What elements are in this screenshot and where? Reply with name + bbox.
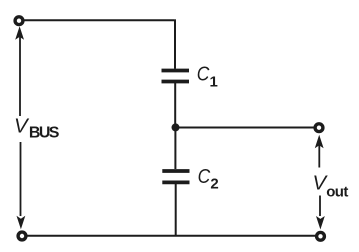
node junction [172, 123, 180, 131]
label C1 [197, 63, 218, 91]
wire C1 top stub [174, 19, 176, 69]
capacitor C2 [162, 171, 189, 182]
terminal bottom-left [18, 232, 26, 240]
wire junction to C2 [174, 127, 176, 169]
label V_out [313, 171, 349, 200]
svg-text:2: 2 [210, 175, 218, 192]
label V_BUS [14, 115, 60, 142]
capacitor C1 [162, 71, 190, 82]
arrow V_out down [316, 196, 325, 230]
svg-text:BUS: BUS [29, 125, 60, 142]
wire C2 to bottom [175, 184, 177, 236]
terminal top-left [15, 17, 23, 25]
label C2 [198, 165, 219, 192]
terminal top-right [315, 124, 323, 132]
arrow V_BUS down [17, 142, 26, 229]
wire junction to right terminal [176, 127, 314, 129]
wire top [24, 19, 174, 21]
wire C1 to junction [174, 83, 176, 127]
arrow V_out up [315, 135, 324, 168]
terminal bottom-right [317, 232, 325, 240]
svg-text:out: out [326, 183, 348, 200]
arrow V_BUS up [15, 26, 24, 116]
wire bottom [27, 235, 315, 237]
svg-text:V: V [14, 115, 30, 138]
svg-text:1: 1 [210, 74, 218, 91]
svg-text:C: C [198, 165, 211, 188]
svg-text:C: C [197, 63, 210, 86]
